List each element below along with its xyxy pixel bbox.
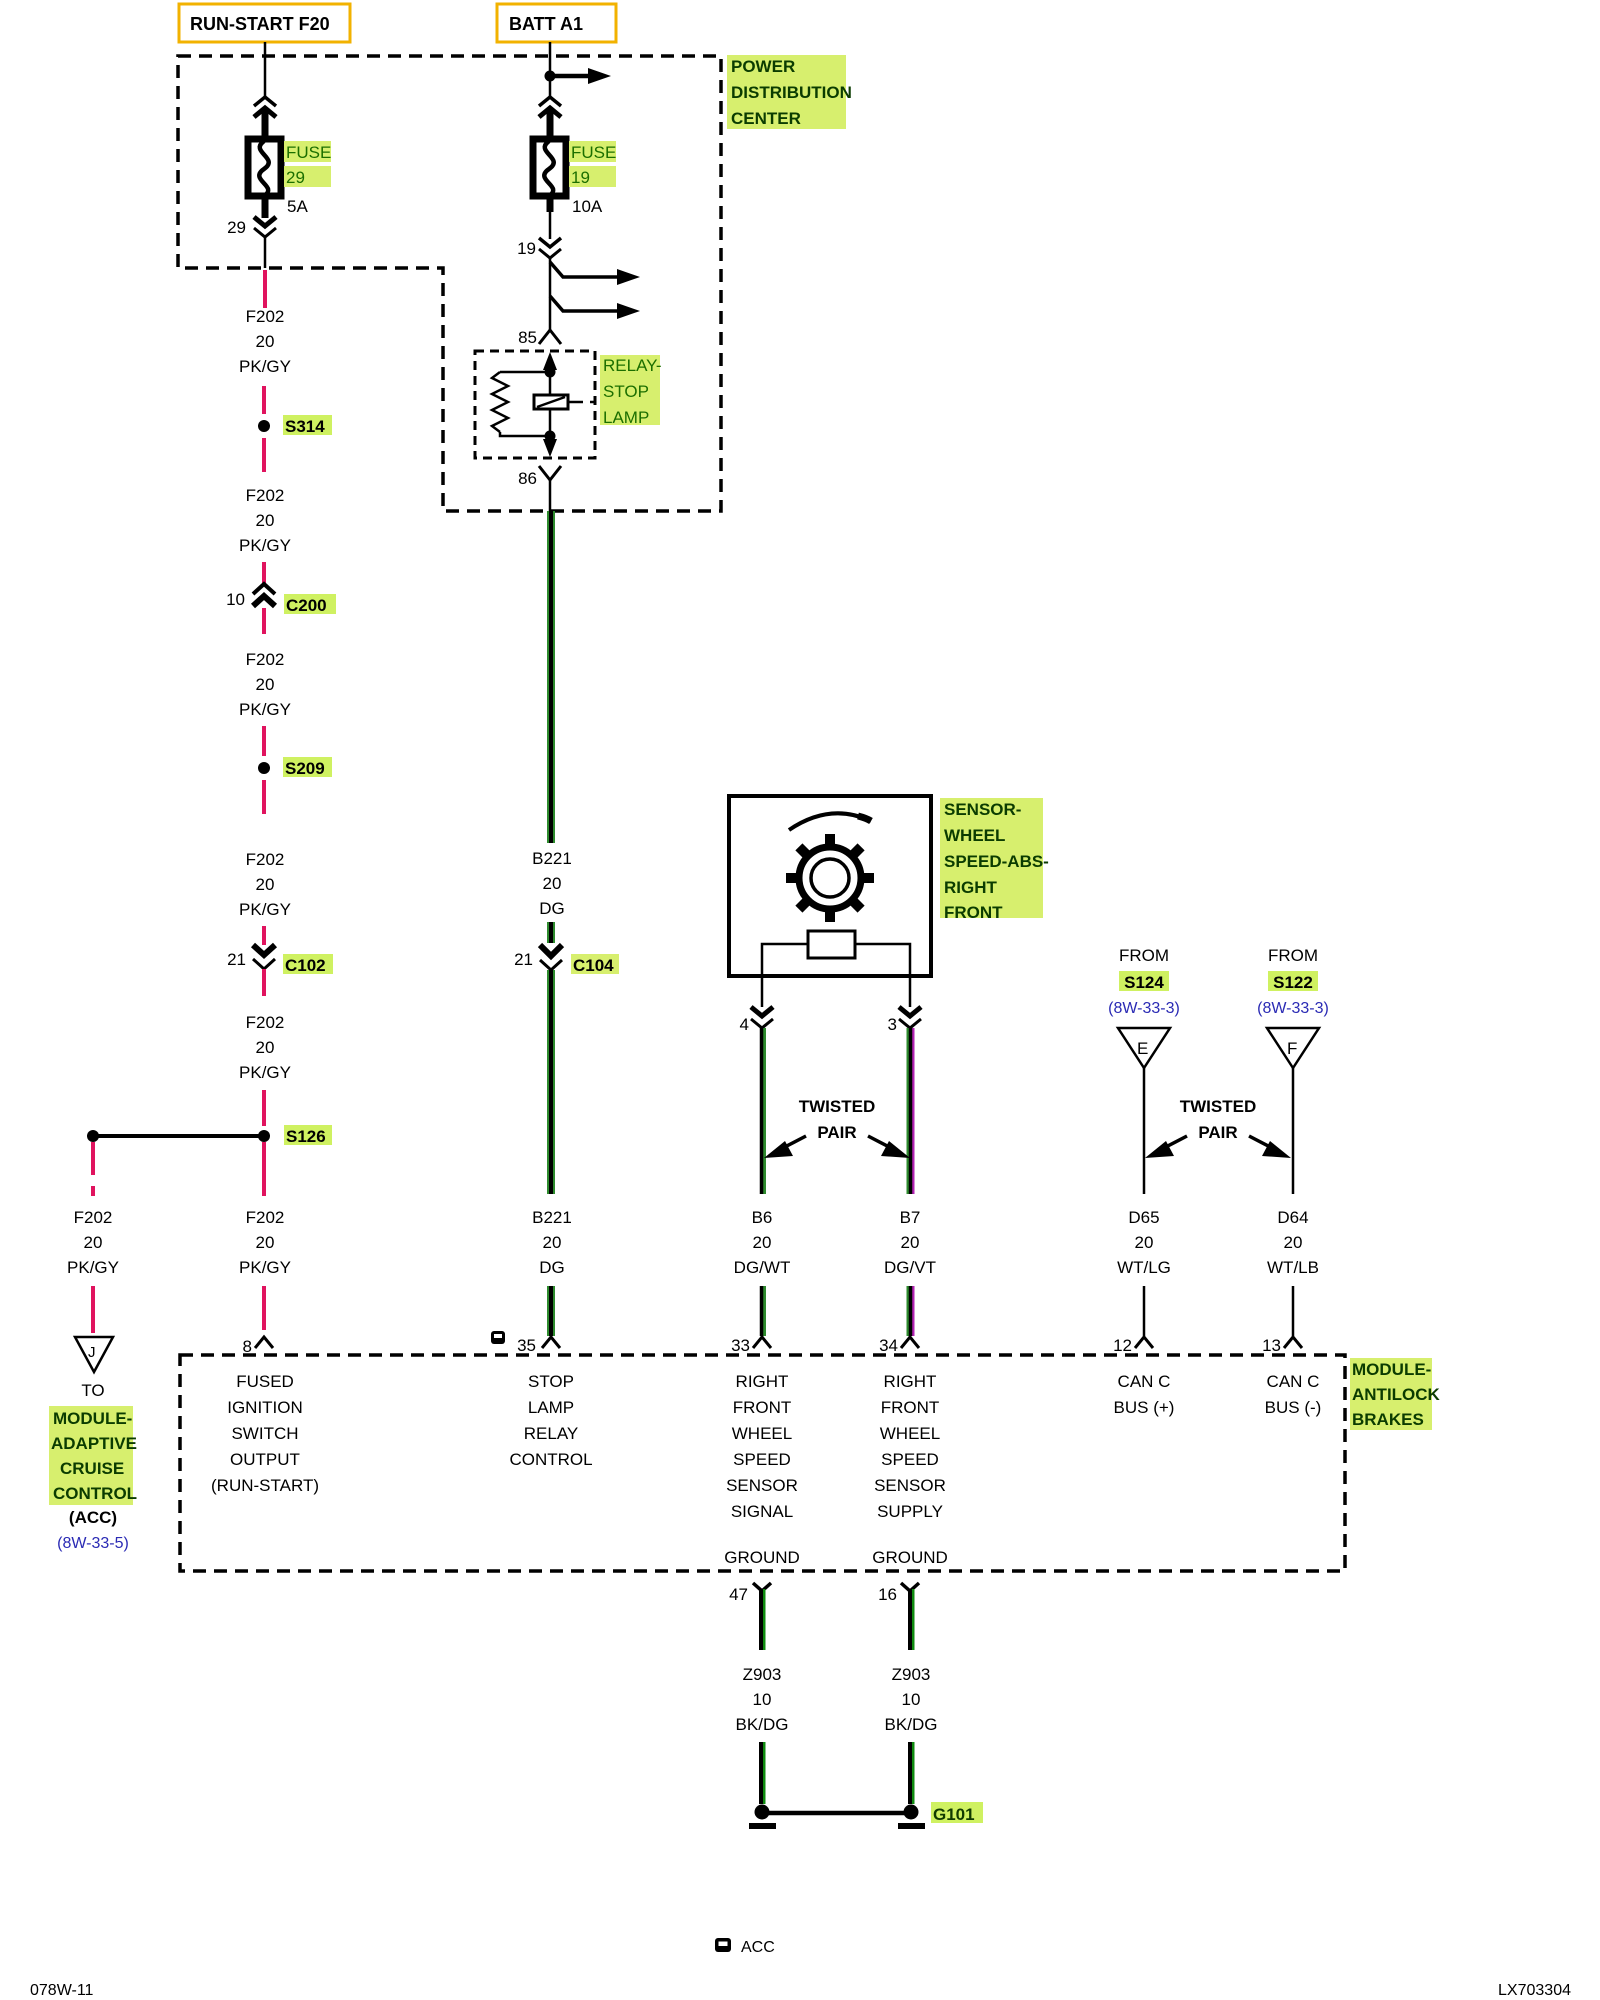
wire F202 segment 8 <box>262 926 266 945</box>
svg-text:BK/DG: BK/DG <box>885 1715 938 1734</box>
branch arrow 2 inside PDC <box>550 296 640 319</box>
label right front wheel speed sensor supply ground <box>872 1372 948 1567</box>
svg-text:8: 8 <box>243 1337 252 1356</box>
sensor pickup element <box>762 931 910 976</box>
wire B7 upper segment (DG/VT) <box>909 1028 913 1194</box>
ACC legend icon <box>715 1938 731 1952</box>
svg-text:F202: F202 <box>74 1208 113 1227</box>
svg-text:BRAKES: BRAKES <box>1352 1410 1424 1429</box>
svg-text:20: 20 <box>256 511 275 530</box>
connector C102 <box>227 945 333 975</box>
svg-text:TWISTED: TWISTED <box>799 1097 876 1116</box>
power distribution center dashed enclosure <box>178 56 721 511</box>
junction dot bottom of relay <box>545 431 556 442</box>
splice S126 with branch <box>87 1125 332 1146</box>
wire label F202 20 PK/GY (5) <box>239 1013 291 1082</box>
svg-text:SENSOR: SENSOR <box>874 1476 946 1495</box>
label CAN C BUS (-) <box>1265 1372 1322 1417</box>
svg-text:ACC: ACC <box>741 1939 775 1956</box>
module pin 16 <box>901 1583 919 1591</box>
label stop lamp relay control <box>509 1372 592 1469</box>
svg-text:G101: G101 <box>933 1805 975 1824</box>
label SENSOR-WHEEL SPEED-ABS-RIGHT FRONT <box>940 798 1049 922</box>
wire label Z903 10 BK/DG left <box>736 1665 789 1734</box>
svg-text:LX703304: LX703304 <box>1498 1982 1571 1999</box>
svg-text:FUSED: FUSED <box>236 1372 294 1391</box>
svg-text:RIGHT: RIGHT <box>944 878 998 897</box>
svg-text:B221: B221 <box>532 1208 572 1227</box>
svg-text:4: 4 <box>740 1015 749 1034</box>
svg-text:RIGHT: RIGHT <box>884 1372 937 1391</box>
svg-text:S126: S126 <box>286 1127 326 1146</box>
svg-text:10A: 10A <box>572 197 603 216</box>
svg-text:20: 20 <box>256 675 275 694</box>
svg-text:(8W-33-5): (8W-33-5) <box>57 1535 129 1552</box>
wire F202 segment 6 <box>262 726 266 756</box>
svg-text:S314: S314 <box>285 417 325 436</box>
module pin 34 <box>901 1337 919 1348</box>
svg-text:20: 20 <box>1135 1233 1154 1252</box>
svg-text:PAIR: PAIR <box>817 1123 856 1142</box>
svg-text:5A: 5A <box>287 197 308 216</box>
ACC applicability icon near pin 35 <box>491 1331 505 1344</box>
svg-text:FRONT: FRONT <box>881 1398 940 1417</box>
svg-text:S209: S209 <box>285 759 325 778</box>
wire label F202 20 PK/GY (left branch) <box>67 1208 119 1277</box>
svg-text:20: 20 <box>256 1038 275 1057</box>
wire F202 segment 4 <box>262 562 266 584</box>
wire F202 segment 3 <box>262 438 266 472</box>
svg-text:33: 33 <box>731 1336 750 1355</box>
svg-text:SENSOR-: SENSOR- <box>944 800 1021 819</box>
svg-text:10: 10 <box>753 1690 772 1709</box>
svg-text:19: 19 <box>517 239 536 258</box>
wire F202 segment 2 <box>262 386 266 414</box>
svg-text:CENTER: CENTER <box>731 109 801 128</box>
wire Z903 right lower segment <box>910 1742 913 1804</box>
svg-text:J: J <box>88 1344 96 1361</box>
module antilock brakes dashed box <box>180 1355 1345 1571</box>
svg-text:ADAPTIVE: ADAPTIVE <box>51 1434 137 1453</box>
sensor gear (tone wheel) <box>786 834 874 922</box>
label FUSE 19 10A <box>569 141 616 216</box>
wire F202 segment 5 <box>262 608 266 634</box>
svg-text:S124: S124 <box>1124 973 1164 992</box>
svg-text:29: 29 <box>227 218 246 237</box>
svg-text:PK/GY: PK/GY <box>239 1063 291 1082</box>
svg-text:DG/WT: DG/WT <box>734 1258 791 1277</box>
label POWER DISTRIBUTION CENTER <box>727 55 852 129</box>
wire Z903 left upper segment (BK/DG) <box>761 1589 764 1650</box>
svg-text:Z903: Z903 <box>743 1665 782 1684</box>
wire label F202 20 PK/GY (3) <box>239 650 291 719</box>
svg-text:TWISTED: TWISTED <box>1180 1097 1257 1116</box>
svg-text:SUPPLY: SUPPLY <box>877 1502 943 1521</box>
svg-text:WT/LG: WT/LG <box>1117 1258 1171 1277</box>
label TO MODULE-ADAPTIVE CRUISE CONTROL (ACC) <box>49 1381 137 1552</box>
svg-text:RELAY-: RELAY- <box>603 356 662 375</box>
svg-text:FROM: FROM <box>1268 946 1318 965</box>
svg-text:SIGNAL: SIGNAL <box>731 1502 793 1521</box>
svg-text:CONTROL: CONTROL <box>53 1484 137 1503</box>
svg-text:STOP: STOP <box>528 1372 574 1391</box>
relay R1 stop lamp dashed box <box>475 351 595 458</box>
svg-text:STOP: STOP <box>603 382 649 401</box>
svg-text:078W-11: 078W-11 <box>30 1982 94 1999</box>
twisted pair annotation left <box>764 1097 910 1158</box>
wire label B221 20 DG <box>532 849 572 918</box>
svg-text:13: 13 <box>1262 1336 1281 1355</box>
svg-text:F: F <box>1287 1039 1297 1058</box>
module pin 47 <box>753 1583 771 1591</box>
ground G101 left symbol <box>749 1805 776 1827</box>
wire pink into J triangle <box>91 1286 95 1333</box>
relay coil feed arrow up <box>543 352 557 370</box>
wire B6 upper segment (DG/WT) <box>762 1028 764 1194</box>
wire below fuse F29 <box>262 196 269 218</box>
wire F202 into module pin 8 <box>262 1286 266 1330</box>
svg-text:S122: S122 <box>1273 973 1313 992</box>
svg-text:E: E <box>1137 1039 1148 1058</box>
svg-text:86: 86 <box>518 469 537 488</box>
svg-text:29: 29 <box>286 168 305 187</box>
wire F202 right segment below S126 <box>262 1142 266 1196</box>
connector chevrons into fuse 29 <box>254 97 276 106</box>
fuse F29 5A <box>248 139 281 196</box>
svg-text:CAN C: CAN C <box>1118 1372 1171 1391</box>
svg-text:MODULE-: MODULE- <box>53 1409 132 1428</box>
connector C200 <box>226 584 336 615</box>
svg-text:SPEED: SPEED <box>733 1450 791 1469</box>
label right front wheel speed sensor signal ground <box>724 1372 800 1567</box>
wire label B6 20 DG/WT <box>734 1208 791 1277</box>
wire B221 upper segment (DG) <box>547 511 555 843</box>
wire label F202 20 PK/GY (1) <box>239 307 291 376</box>
svg-text:BATT A1: BATT A1 <box>509 14 583 34</box>
svg-text:BK/DG: BK/DG <box>736 1715 789 1734</box>
wire label Z903 10 BK/DG right <box>885 1665 938 1734</box>
svg-text:CRUISE: CRUISE <box>60 1459 124 1478</box>
svg-text:RELAY: RELAY <box>524 1424 579 1443</box>
svg-text:POWER: POWER <box>731 57 795 76</box>
svg-text:WHEEL: WHEEL <box>732 1424 792 1443</box>
wire B221 lower segment (DG) <box>547 970 555 1194</box>
wire Z903 left lower segment <box>761 1742 764 1804</box>
svg-text:RIGHT: RIGHT <box>736 1372 789 1391</box>
sensor rotation arc <box>789 813 871 830</box>
svg-text:CONTROL: CONTROL <box>509 1450 592 1469</box>
svg-text:GROUND: GROUND <box>724 1548 800 1567</box>
svg-text:(8W-33-3): (8W-33-3) <box>1257 1000 1329 1017</box>
branch arrow from BATT feed <box>550 68 611 84</box>
wire label B221 20 DG lower <box>532 1208 572 1277</box>
svg-text:ANTILOCK: ANTILOCK <box>1352 1385 1441 1404</box>
svg-text:OUTPUT: OUTPUT <box>230 1450 300 1469</box>
svg-text:WHEEL: WHEEL <box>944 826 1005 845</box>
svg-text:F202: F202 <box>246 1013 285 1032</box>
twisted pair annotation right <box>1145 1097 1291 1158</box>
svg-text:20: 20 <box>1284 1233 1303 1252</box>
svg-text:PK/GY: PK/GY <box>67 1258 119 1277</box>
svg-text:FUSE: FUSE <box>571 143 616 162</box>
svg-text:20: 20 <box>901 1233 920 1252</box>
svg-text:16: 16 <box>878 1585 897 1604</box>
svg-text:20: 20 <box>256 875 275 894</box>
splice S209 <box>258 757 332 778</box>
wire label F202 20 PK/GY (6) <box>239 1208 291 1277</box>
svg-text:FROM: FROM <box>1119 946 1169 965</box>
off-page connector J <box>75 1337 113 1372</box>
svg-text:GROUND: GROUND <box>872 1548 948 1567</box>
branch arrow 1 inside PDC <box>550 262 640 285</box>
svg-text:TO: TO <box>81 1381 104 1400</box>
svg-text:10: 10 <box>902 1690 921 1709</box>
svg-text:CAN C: CAN C <box>1267 1372 1320 1391</box>
svg-text:SWITCH: SWITCH <box>231 1424 298 1443</box>
off-page connector E <box>1118 1028 1170 1068</box>
relay pin 86 connector <box>539 466 561 480</box>
module pin 12 <box>1135 1337 1153 1348</box>
svg-text:D64: D64 <box>1277 1208 1308 1227</box>
wire between ground points <box>768 1811 905 1816</box>
svg-text:35: 35 <box>517 1336 536 1355</box>
junction dot top of relay <box>545 367 556 378</box>
svg-text:PK/GY: PK/GY <box>239 900 291 919</box>
svg-text:SPEED-ABS-: SPEED-ABS- <box>944 852 1049 871</box>
svg-text:F202: F202 <box>246 486 285 505</box>
wire B7 into module pin 34 <box>909 1286 913 1336</box>
label CAN C BUS (+) <box>1114 1372 1175 1417</box>
module pin 33 <box>753 1337 771 1348</box>
junction dot on BATT feed <box>545 71 556 82</box>
svg-text:20: 20 <box>84 1233 103 1252</box>
wire D64 into module pin 13 <box>1292 1286 1295 1336</box>
wire B6 into module pin 33 <box>762 1286 764 1336</box>
wire F202 branch left segment <box>91 1142 95 1175</box>
svg-text:F202: F202 <box>246 650 285 669</box>
svg-text:PK/GY: PK/GY <box>239 1258 291 1277</box>
svg-text:SENSOR: SENSOR <box>726 1476 798 1495</box>
sensor wheel speed ABS right front box <box>729 796 931 976</box>
svg-text:BUS (-): BUS (-) <box>1265 1398 1322 1417</box>
svg-text:WT/LB: WT/LB <box>1267 1258 1319 1277</box>
svg-text:DG: DG <box>539 1258 565 1277</box>
svg-text:SPEED: SPEED <box>881 1450 939 1469</box>
svg-text:(8W-33-3): (8W-33-3) <box>1108 1000 1180 1017</box>
svg-text:D65: D65 <box>1128 1208 1159 1227</box>
svg-text:WHEEL: WHEEL <box>880 1424 940 1443</box>
svg-text:F202: F202 <box>246 850 285 869</box>
wire below fuse F19 <box>547 196 554 212</box>
wire D65 into module pin 12 <box>1143 1286 1146 1336</box>
relay output arrow down <box>543 439 557 457</box>
svg-text:12: 12 <box>1113 1336 1132 1355</box>
svg-text:DG: DG <box>539 899 565 918</box>
wire D64 upper segment (WT/LB) <box>1292 1068 1295 1194</box>
svg-text:FRONT: FRONT <box>944 903 1003 922</box>
svg-text:(ACC): (ACC) <box>69 1508 117 1527</box>
resistor inside relay <box>492 372 550 436</box>
svg-text:B221: B221 <box>532 849 572 868</box>
svg-text:85: 85 <box>518 328 537 347</box>
svg-text:Z903: Z903 <box>892 1665 931 1684</box>
wire Z903 right upper segment (BK/DG) <box>910 1589 913 1650</box>
svg-text:C200: C200 <box>286 596 327 615</box>
wire into fuse F29 <box>262 111 269 140</box>
wire from BATT A1 into PDC <box>549 42 552 97</box>
ground G101 right symbol <box>898 1805 925 1827</box>
wire into fuse F19 <box>547 111 554 140</box>
relay coil element <box>534 372 595 436</box>
svg-text:DG/VT: DG/VT <box>884 1258 936 1277</box>
svg-text:20: 20 <box>256 332 275 351</box>
wire B221 into module pin 35 <box>547 1286 555 1336</box>
label fused ignition switch output <box>211 1372 319 1495</box>
svg-text:10: 10 <box>226 590 245 609</box>
svg-text:C104: C104 <box>573 956 614 975</box>
label MODULE-ANTILOCK BRAKES <box>1350 1358 1441 1430</box>
label FROM S122 (8W-33-3) <box>1257 946 1329 1017</box>
connector chevrons into fuse 19 <box>539 97 561 106</box>
svg-text:20: 20 <box>753 1233 772 1252</box>
svg-text:34: 34 <box>879 1336 898 1355</box>
svg-text:FRONT: FRONT <box>733 1398 792 1417</box>
wire label D65 20 WT/LG <box>1117 1208 1171 1277</box>
svg-text:PK/GY: PK/GY <box>239 700 291 719</box>
svg-text:BUS (+): BUS (+) <box>1114 1398 1175 1417</box>
wire from pin 29 to PDC edge <box>264 237 267 268</box>
off-page connector F <box>1267 1028 1319 1068</box>
fuse F19 10A <box>533 139 566 196</box>
module pin 35 <box>542 1337 560 1348</box>
wire F202 segment 1 (PK/GY) below PDC <box>263 270 267 308</box>
svg-text:20: 20 <box>543 874 562 893</box>
svg-text:21: 21 <box>514 950 533 969</box>
svg-text:C102: C102 <box>285 956 326 975</box>
svg-text:B7: B7 <box>900 1208 921 1227</box>
pin 29 connector chevrons <box>254 217 276 226</box>
sensor pin 4 connector <box>740 976 773 1034</box>
relay pin 85 connector <box>539 330 561 344</box>
svg-text:20: 20 <box>543 1233 562 1252</box>
svg-text:F202: F202 <box>246 1208 285 1227</box>
label FROM S124 (8W-33-3) <box>1108 946 1180 1017</box>
connector C104 <box>514 922 619 975</box>
node RUN-START F20 source box <box>179 4 350 42</box>
wire label D64 20 WT/LB <box>1267 1208 1319 1277</box>
svg-text:IGNITION: IGNITION <box>227 1398 303 1417</box>
sensor pin 3 connector <box>888 976 921 1034</box>
svg-text:PK/GY: PK/GY <box>239 357 291 376</box>
label RELAY-STOP LAMP <box>600 355 662 427</box>
svg-text:B6: B6 <box>752 1208 773 1227</box>
module pin 8 <box>255 1337 273 1348</box>
node BATT A1 source box <box>497 4 616 42</box>
wire D65 upper segment (WT/LG) <box>1143 1068 1146 1194</box>
pin 19 connector chevrons <box>539 238 561 247</box>
wire from RUN-START F20 into PDC <box>264 42 267 97</box>
label G101 <box>931 1802 983 1824</box>
svg-text:MODULE-: MODULE- <box>1352 1360 1431 1379</box>
svg-text:21: 21 <box>227 950 246 969</box>
splice S314 <box>258 415 332 436</box>
label FUSE 29 5A <box>284 141 331 216</box>
wire F202 segment 10 <box>262 1090 266 1126</box>
svg-text:20: 20 <box>256 1233 275 1252</box>
svg-text:3: 3 <box>888 1015 897 1034</box>
svg-text:DISTRIBUTION: DISTRIBUTION <box>731 83 852 102</box>
svg-text:PAIR: PAIR <box>1198 1123 1237 1142</box>
wire from pin 86 to PDC edge <box>549 480 552 511</box>
wire label F202 20 PK/GY (4) <box>239 850 291 919</box>
wire label F202 20 PK/GY (2) <box>239 486 291 555</box>
wire F202 segment 9 <box>262 969 266 996</box>
module pin 13 <box>1284 1337 1302 1348</box>
wire label B7 20 DG/VT <box>884 1208 936 1277</box>
svg-text:PK/GY: PK/GY <box>239 536 291 555</box>
svg-text:(RUN-START): (RUN-START) <box>211 1476 319 1495</box>
svg-text:LAMP: LAMP <box>528 1398 574 1417</box>
svg-text:47: 47 <box>729 1585 748 1604</box>
svg-text:LAMP: LAMP <box>603 408 649 427</box>
wire from pin 19 down to relay pin 85 <box>549 258 552 330</box>
svg-text:F202: F202 <box>246 307 285 326</box>
svg-text:FUSE: FUSE <box>286 143 331 162</box>
svg-text:19: 19 <box>571 168 590 187</box>
wire F202 segment 7 <box>262 780 266 814</box>
svg-text:RUN-START F20: RUN-START F20 <box>190 14 330 34</box>
